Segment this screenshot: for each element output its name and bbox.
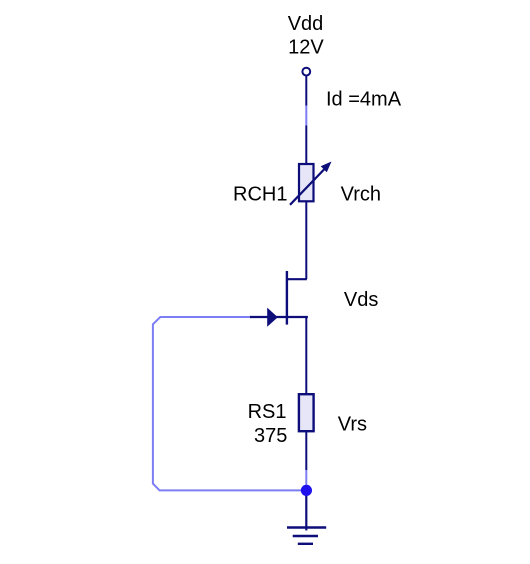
wire (net) RS1 to ground node — [305, 470, 307, 487]
node junction dot — [301, 485, 312, 496]
svg-text:Vdd: Vdd — [288, 13, 324, 35]
rheostat RCH1 — [290, 162, 332, 205]
drain stub — [287, 278, 307, 280]
power terminal Vdd — [302, 68, 310, 76]
svg-text:375: 375 — [254, 425, 287, 447]
gate and source line — [250, 316, 308, 318]
wire ground pin — [305, 490, 307, 530]
wire (net) Vdd to RCH1 — [305, 106, 307, 126]
svg-text:RCH1: RCH1 — [233, 183, 287, 205]
svg-text:Vds: Vds — [344, 289, 378, 311]
ground — [287, 528, 326, 544]
gate arrowhead — [267, 308, 278, 327]
transistor Q1 (N-JFET) — [250, 271, 308, 327]
wire RS1 bottom pin — [305, 432, 307, 471]
wire RCH1 top pin — [305, 126, 307, 165]
resistor RS1 — [299, 394, 314, 431]
svg-text:12V: 12V — [288, 37, 324, 59]
svg-text:Vrch: Vrch — [341, 183, 381, 205]
svg-text:RS1: RS1 — [248, 401, 287, 423]
svg-text:Vrs: Vrs — [338, 413, 367, 435]
wire feedback loop gate to source node — [153, 317, 302, 490]
channel bar — [286, 271, 288, 325]
wire RCH1 bottom pin to JFET drain — [305, 202, 307, 279]
svg-text:Id =4mA: Id =4mA — [326, 89, 402, 111]
wire JFET source to RS1 — [305, 316, 307, 394]
wire Vdd pin — [305, 76, 307, 106]
